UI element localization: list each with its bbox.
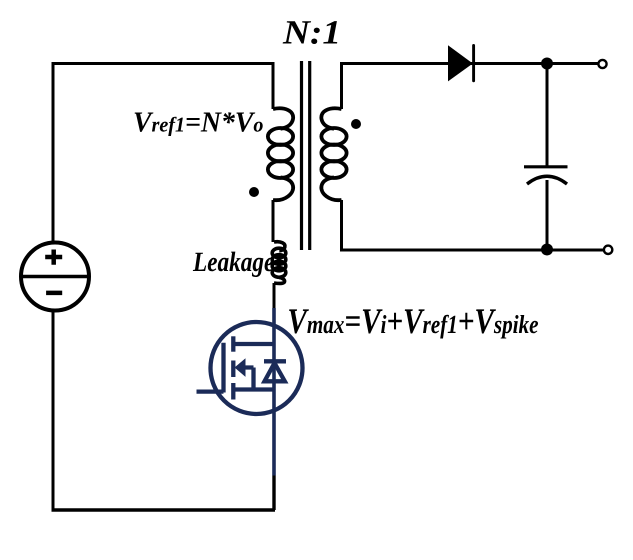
wire: left vertical lower (52, 310, 55, 510)
wire: leakage to MOSFET drain (black part) (273, 283, 276, 308)
label Leakage (193, 252, 274, 277)
primary phasing dot (249, 187, 259, 197)
MOSFET Q1 gate (197, 343, 224, 393)
wire: secondary bottom lead (340, 200, 343, 250)
diode D1 (448, 45, 474, 81)
MOSFET Q1 drain stub (233, 342, 274, 346)
label N:1 (283, 21, 338, 44)
wire: primary lead to leakage (272, 200, 275, 242)
MOSFET Q1 body arrow (235, 359, 253, 389)
voltage source V1 (21, 243, 89, 311)
label Vref1=N*Vo (135, 112, 263, 136)
MOSFET Q1 channel segments (231, 336, 235, 399)
MOSFET Q1 source stub (233, 387, 274, 391)
capacitor C1 (524, 167, 568, 184)
transformer core (302, 61, 310, 250)
wire: capacitor top lead (546, 64, 549, 168)
node: bottom junction (541, 244, 553, 256)
label Vmax equation (289, 309, 538, 338)
MOSFET Q1 body circle (211, 322, 303, 414)
wire: MOSFET source to bottom rail (black part) (272, 476, 275, 511)
wire: bottom rail right (340, 249, 604, 252)
wire: left vertical upper (52, 62, 55, 243)
wire: primary top lead (272, 62, 275, 109)
transformer secondary winding (321, 108, 346, 200)
transformer primary winding (268, 108, 293, 200)
wire: top rail right (secondary to output) (340, 62, 599, 65)
wire: top rail left (source to primary) (53, 62, 273, 65)
wire: secondary top lead (340, 64, 343, 110)
leakage inductor (272, 242, 286, 284)
wire: capacitor bottom lead (546, 180, 549, 250)
node: top junction (541, 58, 553, 70)
output terminal top (598, 60, 606, 68)
wire: bottom rail (52, 508, 276, 512)
wire: MOSFET drain wire (navy) (272, 308, 276, 476)
MOSFET Q1 body diode (264, 361, 286, 381)
secondary phasing dot (351, 119, 361, 129)
output terminal bottom (604, 246, 612, 254)
